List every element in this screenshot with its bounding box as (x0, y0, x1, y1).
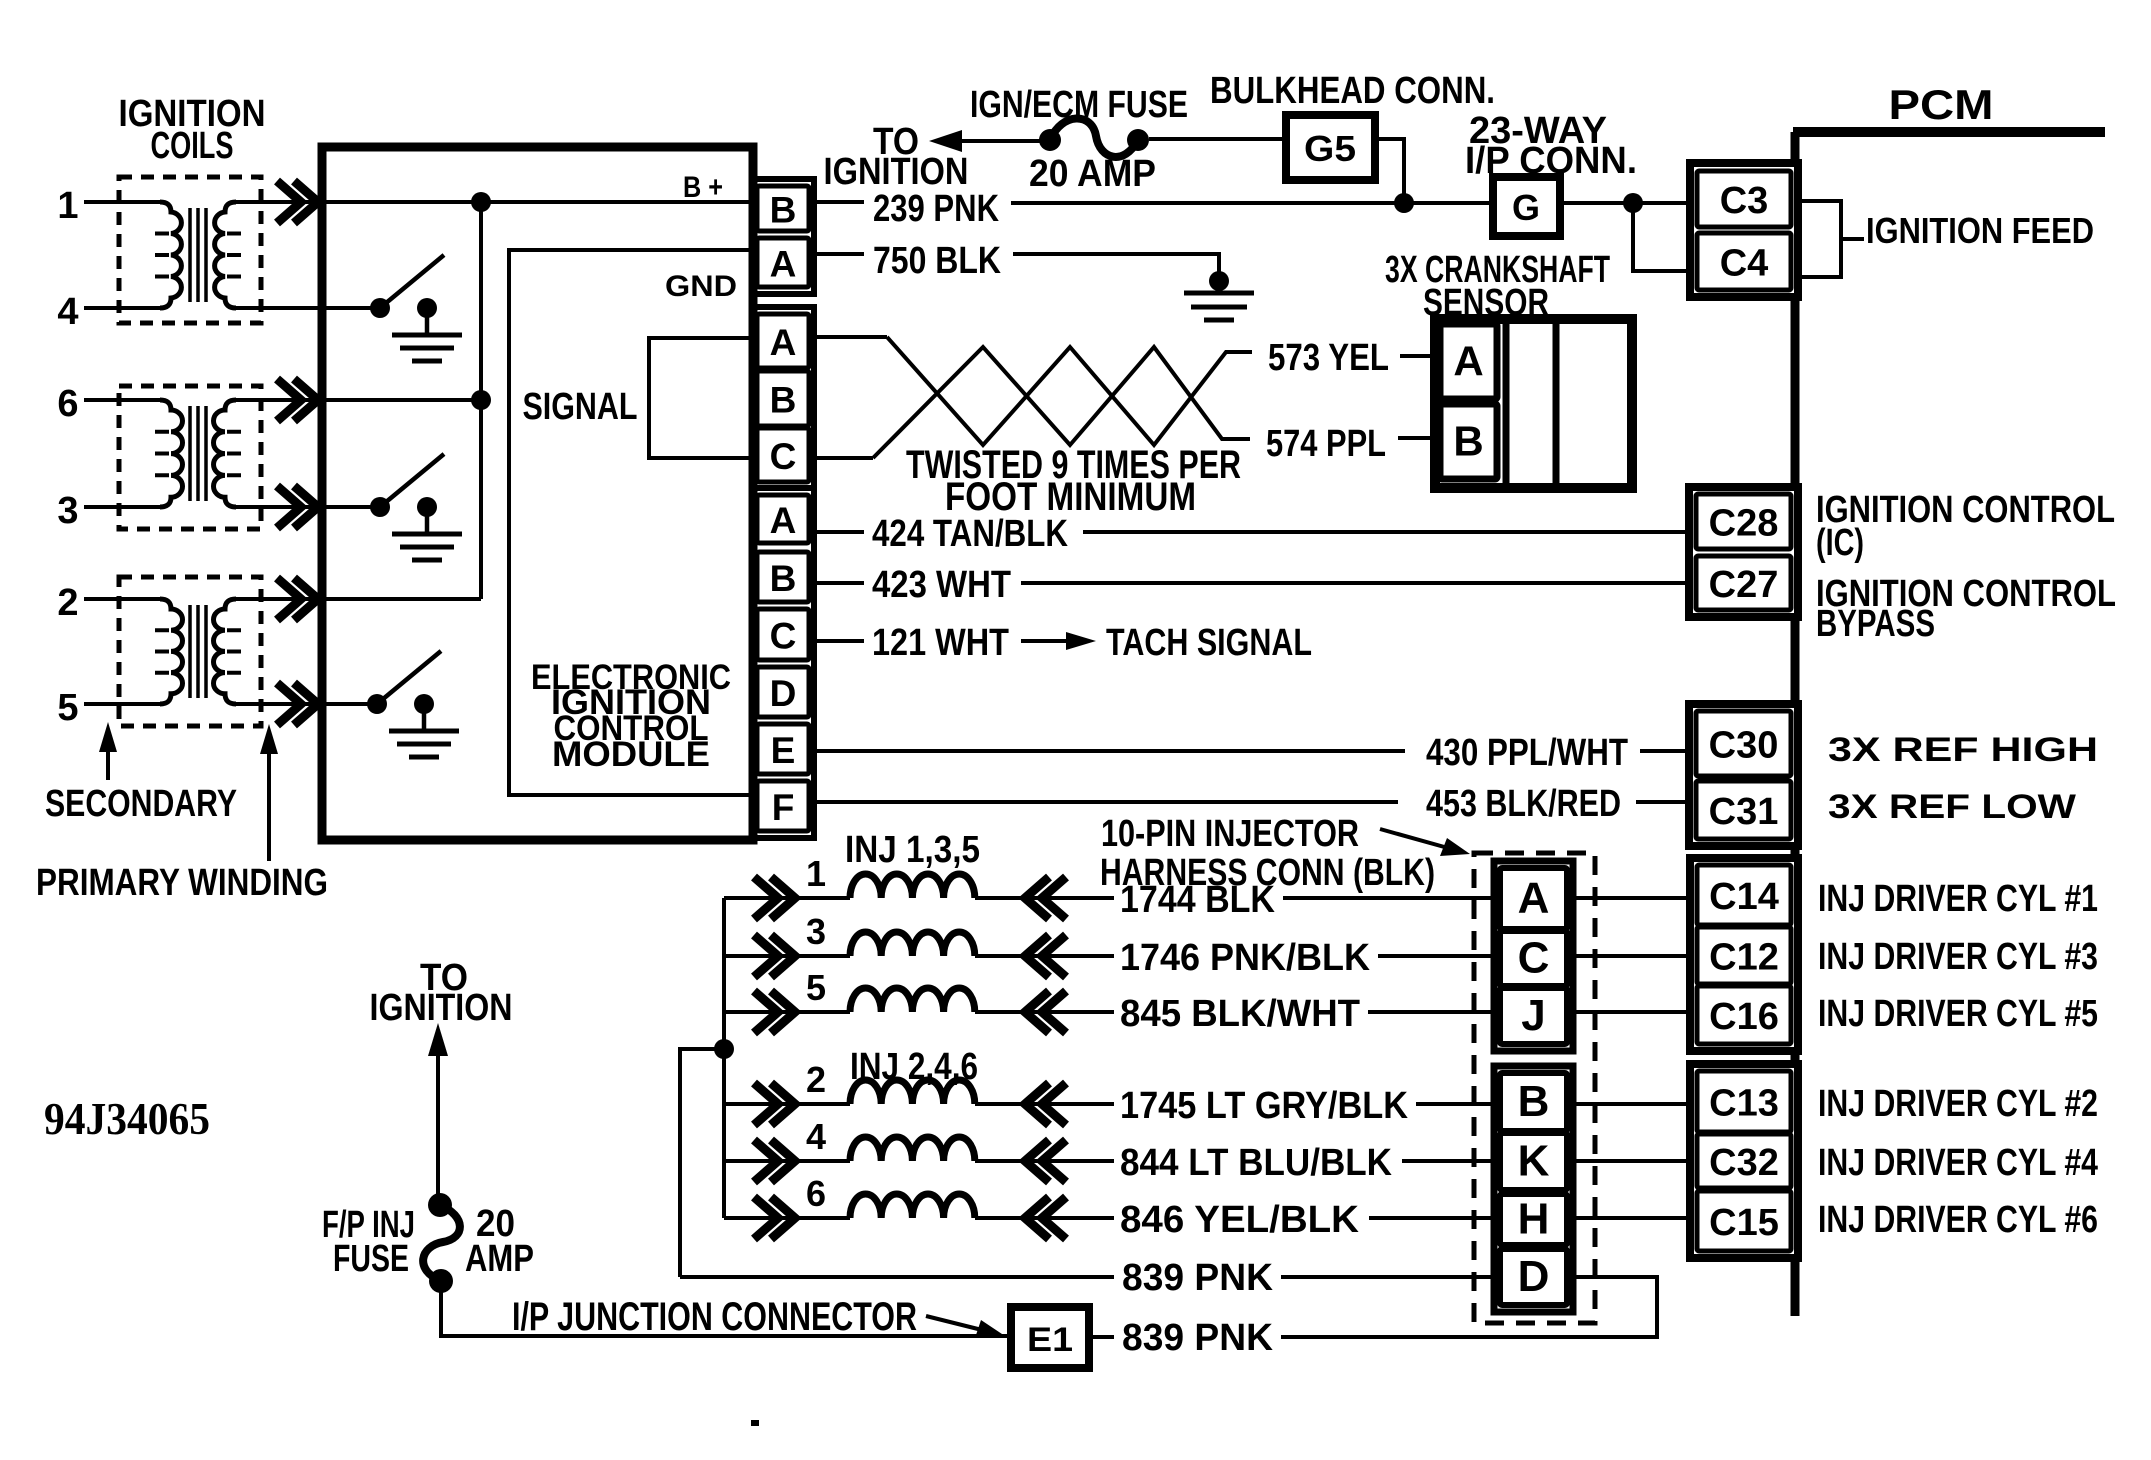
wire 430 PPL/WHT run (809, 749, 1405, 753)
injector 2 chevrons left (754, 1083, 778, 1125)
module connector group B/A outline (752, 179, 814, 294)
injector 6 chevrons right (1025, 1197, 1049, 1239)
svg-text:845 BLK/WHT: 845 BLK/WHT (1120, 993, 1360, 1035)
svg-text:HARNESS CONN (BLK): HARNESS CONN (BLK) (1100, 852, 1435, 894)
label TWISTED 9 TIMES PER FOOT MINIMUM (906, 443, 1241, 519)
wire 839 PNK (injector feed) (680, 1275, 1114, 1279)
junction dot before C3 (1623, 193, 1643, 213)
injector 5 coil (850, 988, 975, 1012)
svg-text:3: 3 (806, 911, 826, 952)
PCM pin C32 (1697, 1134, 1791, 1188)
injector harness connector dashed box (1474, 853, 1595, 1323)
connector chevron wire 202 (277, 181, 301, 223)
svg-text:C27: C27 (1709, 564, 1779, 606)
junction dot below G5 (1394, 193, 1414, 213)
PCM pin C16 (1697, 986, 1791, 1044)
svg-text:FUSE: FUSE (333, 1238, 409, 1280)
PCM top boundary line (1793, 127, 2105, 137)
svg-text:G5: G5 (1304, 128, 1356, 169)
injector 1 chevrons left (754, 877, 778, 919)
arrow to E1 (926, 1316, 1005, 1338)
wire 424 TAN/BLK stub (809, 530, 864, 534)
wire terminal 3 to secondary (84, 505, 160, 509)
svg-text:B +: B + (683, 171, 723, 204)
fuse F/P INJ 20 AMP symbol (423, 1193, 460, 1293)
svg-text:C16: C16 (1709, 996, 1779, 1038)
svg-text:6: 6 (806, 1173, 826, 1214)
injector 6 wire left (724, 1216, 850, 1220)
label TO IGNITION (bottom) (370, 957, 513, 1029)
svg-text:F: F (772, 787, 795, 828)
module pin A (424) (757, 495, 809, 543)
injector 6 chevrons left (754, 1197, 778, 1239)
svg-text:1: 1 (806, 853, 826, 894)
arrow 121 WHT to tach (1021, 632, 1096, 650)
injector 5 chevrons left (754, 991, 778, 1033)
PCM connector group C14/C12/C16 outline (1690, 858, 1798, 1051)
svg-text:COILS: COILS (151, 125, 234, 167)
svg-text:C14: C14 (1709, 876, 1779, 918)
PCM pin C14 (1697, 865, 1791, 925)
svg-text:BULKHEAD CONN.: BULKHEAD CONN. (1210, 70, 1495, 112)
switch/ground for coil T1 (370, 255, 462, 361)
electronic ignition control module outline (322, 147, 753, 840)
PCM pin C27 (1696, 556, 1791, 610)
injector 2 chevrons right (1025, 1083, 1049, 1125)
svg-text:A: A (770, 322, 797, 363)
ignition coil T1 secondary winding (160, 202, 181, 308)
label 10-PIN INJECTOR HARNESS CONN (BLK) (1100, 813, 1435, 894)
wire coil T1 primary to switch (row 308) (236, 306, 380, 310)
wire 839 PNK to harness pin D (1281, 1275, 1500, 1279)
svg-text:INJ DRIVER CYL #6: INJ DRIVER CYL #6 (1818, 1199, 2098, 1241)
svg-text:G: G (1512, 187, 1540, 228)
twisted pair wire A (573) (887, 337, 1252, 445)
arrow to ignition (bottom) (428, 1023, 448, 1199)
svg-text:IGNITION FEED: IGNITION FEED (1866, 210, 2094, 251)
stray mark (751, 1420, 759, 1426)
PCM pin C4 (1697, 233, 1791, 290)
svg-text:E: E (771, 730, 796, 771)
svg-text:1: 1 (57, 185, 78, 227)
injector 4 wire to label (975, 1159, 1114, 1163)
svg-text:430 PPL/WHT: 430 PPL/WHT (1426, 732, 1628, 774)
harness pin A (1500, 868, 1567, 929)
label ELECTRONIC IGNITION CONTROL MODULE (531, 658, 731, 774)
svg-text:2: 2 (57, 582, 78, 624)
svg-text:239 PNK: 239 PNK (873, 188, 999, 230)
svg-text:H: H (1518, 1195, 1550, 1244)
wire 750 BLK run (1013, 254, 1219, 274)
wire fuse to E1 (441, 1288, 1011, 1336)
svg-text:INJ 1,3,5: INJ 1,3,5 (845, 829, 980, 871)
wire branch to C4 (1633, 203, 1697, 271)
module connector group A-F outline (752, 488, 814, 838)
PCM pin C12 (1697, 927, 1791, 984)
label IGNITION CONTROL (IC) (1816, 489, 2115, 564)
ignition coil T3 secondary winding (160, 599, 183, 704)
ground G (750 BLK) symbol (1184, 291, 1254, 296)
wire 573 YEL to sensor pin A (1400, 354, 1440, 358)
wire 844 LT BLU/BLK to harness pin (1402, 1159, 1500, 1163)
wire terminal 2 to secondary (84, 597, 160, 601)
harness pin J (1500, 988, 1567, 1044)
harness pin C (1500, 931, 1567, 986)
svg-text:B: B (1518, 1077, 1550, 1126)
svg-text:6: 6 (57, 383, 78, 425)
svg-text:SIGNAL: SIGNAL (523, 386, 638, 428)
svg-text:750 BLK: 750 BLK (873, 240, 1001, 282)
harness pin B (1500, 1073, 1567, 1131)
svg-text:B: B (770, 190, 797, 231)
svg-text:C13: C13 (1709, 1083, 1779, 1125)
ignition coil T1 primary winding (215, 202, 236, 308)
svg-text:573 YEL: 573 YEL (1268, 337, 1389, 379)
svg-text:K: K (1518, 1137, 1550, 1186)
wire harness to C32 (1567, 1159, 1697, 1163)
injector 5 wire to label (975, 1010, 1114, 1014)
twisted pair wire B (574) (873, 347, 1250, 458)
wire terminal 1 to secondary (84, 200, 160, 204)
label 20 AMP (bottom) (465, 1203, 534, 1280)
svg-text:A: A (1518, 874, 1550, 923)
svg-text:GND: GND (665, 270, 737, 303)
wire harness to C14 (1567, 896, 1697, 900)
injector 4 coil (850, 1137, 975, 1161)
wire 1744 BLK to harness pin (1283, 896, 1500, 900)
ignition coil T2 (cyl 6/3) dashed enclosure (119, 386, 261, 529)
injector 2 wire left (724, 1102, 850, 1106)
connector chevron wire 507 (277, 486, 301, 528)
ignition coil T3 (cyl 2/5) dashed enclosure (119, 577, 261, 726)
sensor pin B (1440, 404, 1497, 479)
svg-text:4: 4 (806, 1116, 826, 1157)
PCM pin C28 (1696, 494, 1791, 549)
svg-text:B: B (1453, 418, 1483, 465)
PCM connector group C13/C32/C15 outline (1690, 1064, 1798, 1258)
harness pin H (1500, 1194, 1567, 1245)
PCM connector group C28/C27 outline (1689, 487, 1798, 617)
PCM pin C13 (1697, 1071, 1791, 1132)
wire 845 BLK/WHT to harness pin (1368, 1010, 1500, 1014)
svg-text:5: 5 (806, 967, 826, 1008)
junction dot injector rail (714, 1039, 734, 1059)
injector 6 coil (850, 1194, 975, 1218)
connector G box (1493, 177, 1560, 236)
svg-text:D: D (1518, 1252, 1550, 1301)
PCM connector group C30/C31 outline (1689, 704, 1798, 846)
svg-text:PCM: PCM (1889, 81, 1994, 128)
PCM pin C3 (1697, 171, 1791, 227)
arrow to ignition (929, 130, 1042, 152)
svg-text:A: A (1453, 338, 1483, 385)
module pin A (signal) (757, 314, 809, 368)
label F/P INJ FUSE (322, 1204, 415, 1280)
svg-text:C3: C3 (1720, 180, 1769, 222)
sensor internal dividers (1503, 324, 1510, 483)
svg-text:BYPASS: BYPASS (1816, 603, 1935, 645)
3X crankshaft sensor box (1435, 319, 1632, 488)
svg-text:J: J (1521, 991, 1545, 1040)
injector 1 chevrons right (1025, 877, 1049, 919)
wire terminal 4 to secondary (84, 306, 160, 310)
wire 846 YEL/BLK to harness pin (1369, 1216, 1500, 1220)
injector 3 wire left (724, 954, 850, 958)
svg-text:C: C (770, 436, 797, 477)
injector 3 chevrons right (1025, 935, 1049, 977)
svg-text:C: C (1518, 934, 1550, 983)
label IGNITION CONTROL BYPASS (1816, 573, 2116, 645)
svg-text:C31: C31 (1709, 791, 1779, 833)
wire 423 WHT stub (809, 581, 864, 585)
ignition feed bracket (1798, 201, 1841, 277)
harness group A/C/J outline (1494, 861, 1573, 1051)
module pin B (757, 186, 809, 231)
wire coil T3 primary to switch (row 704) (236, 702, 380, 706)
module pin B (423) (757, 552, 809, 602)
wire harness to C12 (1567, 954, 1697, 958)
svg-text:844 LT BLU/BLK: 844 LT BLU/BLK (1120, 1142, 1393, 1184)
module connector group A/B/C outline (752, 307, 814, 488)
ignition coil T1 core (188, 208, 192, 302)
svg-text:INJ DRIVER CYL #2: INJ DRIVER CYL #2 (1818, 1083, 2098, 1125)
svg-text:5: 5 (57, 687, 78, 729)
svg-text:1746 PNK/BLK: 1746 PNK/BLK (1120, 937, 1371, 979)
svg-text:A: A (770, 244, 797, 285)
module inner boundary (GND to F) (509, 250, 753, 795)
wire coil T2 primary to B+ rail (row 400) (236, 398, 481, 402)
wire 1746 PNK/BLK to harness pin (1378, 954, 1500, 958)
switch/ground for coil T2 (370, 454, 462, 560)
connector chevron wire 400 (277, 379, 301, 421)
svg-text:846 YEL/BLK: 846 YEL/BLK (1120, 1199, 1360, 1241)
wire 424 TAN/BLK run to C28 (1083, 530, 1696, 534)
ignition coil T3 core (188, 605, 192, 698)
wire G5 down to 239 PNK (1375, 139, 1404, 203)
wire 423 WHT run to C27 (1021, 581, 1696, 585)
label 23-WAY I/P CONN. (1465, 110, 1637, 182)
wire harness D to E1 (839 PNK) (1281, 1277, 1657, 1337)
junction dot B+ rail row 202 (471, 192, 491, 212)
svg-text:423 WHT: 423 WHT (872, 564, 1011, 606)
wire 574 PPL to sensor pin B (1398, 436, 1440, 440)
switch/ground for coil T3 (367, 651, 459, 757)
injector feed rail (722, 898, 726, 1218)
wire signal A to twisted pair (809, 335, 887, 339)
junction dot B+ rail row 400 (471, 390, 491, 410)
injector 1 wire to label (975, 896, 1114, 900)
svg-text:MODULE: MODULE (552, 735, 710, 774)
module pin D (757, 667, 809, 717)
svg-text:C12: C12 (1709, 937, 1779, 979)
svg-text:I/P JUNCTION CONNECTOR: I/P JUNCTION CONNECTOR (512, 1295, 917, 1339)
injector 2 wire to label (975, 1102, 1114, 1106)
module pin A (GND) (757, 238, 809, 287)
injector 3 wire to label (975, 954, 1114, 958)
svg-text:3X REF LOW: 3X REF LOW (1828, 788, 2077, 826)
svg-text:C28: C28 (1709, 503, 1779, 545)
svg-text:121 WHT: 121 WHT (872, 622, 1009, 664)
PCM pin C15 (1697, 1191, 1791, 1251)
svg-text:1745 LT GRY/BLK: 1745 LT GRY/BLK (1120, 1085, 1409, 1127)
wire 430 PPL/WHT to C30 (1640, 749, 1696, 753)
injector 3 chevrons left (754, 935, 778, 977)
injector 5 wire left (724, 1010, 850, 1014)
ignition coil T1 (cyl 1/4) dashed enclosure (119, 177, 261, 323)
ignition coil T2 core (188, 406, 192, 501)
svg-text:424 TAN/BLK: 424 TAN/BLK (872, 513, 1068, 555)
svg-text:4: 4 (57, 291, 78, 333)
wire terminal 5 to secondary (84, 702, 160, 706)
label PRIMARY WINDING with arrow (36, 724, 328, 904)
svg-text:3X REF HIGH: 3X REF HIGH (1828, 731, 2098, 769)
connector G5 box (1286, 115, 1375, 180)
connector chevron wire 704 (277, 683, 301, 725)
injector 4 wire left (724, 1159, 850, 1163)
module pin E (757, 724, 809, 774)
wire coil T2 primary to switch (row 507) (236, 505, 380, 509)
module pin C (signal) (757, 428, 809, 482)
module pin F (757, 781, 809, 831)
injector 1 wire left (724, 896, 850, 900)
svg-text:839 PNK: 839 PNK (1122, 1257, 1274, 1299)
svg-text:C15: C15 (1709, 1202, 1779, 1244)
ignition coil T2 secondary winding (160, 400, 183, 507)
injector 4 chevrons left (754, 1140, 778, 1182)
svg-text:IGNITION: IGNITION (370, 987, 513, 1029)
harness pin D (1500, 1249, 1567, 1305)
wire harness to C13 (1567, 1102, 1697, 1106)
wire 453 BLK/RED to C31 (1636, 800, 1696, 804)
arrow to harness connector (1380, 829, 1470, 856)
svg-text:C30: C30 (1709, 725, 1779, 767)
harness group B/K/H/D outline (1494, 1066, 1573, 1312)
svg-text:94J34065: 94J34065 (44, 1094, 210, 1144)
injector 2 coil (850, 1080, 975, 1104)
svg-text:C: C (770, 616, 797, 657)
injector 6 wire to label (975, 1216, 1114, 1220)
svg-text:PRIMARY WINDING: PRIMARY WINDING (36, 862, 328, 904)
svg-text:20 AMP: 20 AMP (1029, 153, 1156, 195)
wire 239 PNK run to PCM C3 (1011, 201, 1697, 205)
wire coil T1 primary to B+ rail (row 202) (236, 200, 757, 204)
svg-text:B: B (770, 558, 797, 599)
svg-text:A: A (770, 500, 797, 541)
svg-text:C4: C4 (1720, 243, 1769, 285)
module pin B (signal) (757, 371, 809, 426)
svg-text:INJ DRIVER CYL #4: INJ DRIVER CYL #4 (1818, 1142, 2098, 1184)
connector E1 box (1011, 1307, 1089, 1368)
svg-text:SECONDARY: SECONDARY (45, 783, 237, 825)
svg-text:INJ DRIVER CYL #3: INJ DRIVER CYL #3 (1818, 936, 2098, 978)
svg-text:IGNITION: IGNITION (824, 151, 969, 193)
label 3X CRANKSHAFT SENSOR (1385, 249, 1610, 324)
svg-text:453 BLK/RED: 453 BLK/RED (1426, 783, 1621, 825)
svg-text:574 PPL: 574 PPL (1266, 423, 1386, 465)
label SECONDARY with arrow (45, 722, 237, 825)
connector chevron wire 599 (277, 578, 301, 620)
PCM pin C30 (1696, 711, 1791, 776)
svg-text:2: 2 (806, 1059, 826, 1100)
wire fuse to G5 (1149, 137, 1286, 141)
wire 1745 LT GRY/BLK to harness pin (1416, 1102, 1500, 1106)
injector 5 chevrons right (1025, 991, 1049, 1033)
wire E1 right stub (1089, 1335, 1114, 1339)
injector 1 coil (850, 874, 975, 898)
signal bracket joining pins A and C (649, 338, 753, 458)
wire rail to 839 PNK drop (680, 1049, 724, 1277)
ignition coil T2 primary winding (214, 400, 237, 507)
svg-text:3: 3 (57, 490, 78, 532)
injector 4 chevrons right (1025, 1140, 1049, 1182)
PCM left boundary line (1791, 132, 1800, 1316)
fuse IGN/ECM 20 AMP symbol (1039, 118, 1149, 156)
svg-text:E1: E1 (1027, 1321, 1073, 1359)
wire 453 BLK/RED run (809, 800, 1398, 804)
wire harness to C15 (1567, 1216, 1697, 1220)
ground G (750 BLK) dot (1209, 271, 1229, 291)
B+ rail vertical (479, 202, 483, 599)
svg-text:10-PIN INJECTOR: 10-PIN INJECTOR (1101, 813, 1359, 855)
label TO IGNITION (top) (824, 121, 969, 193)
svg-text:TACH SIGNAL: TACH SIGNAL (1106, 622, 1312, 664)
module pin C (121) (757, 609, 809, 660)
wire coil T3 primary to B+ rail (row 599) (236, 597, 481, 601)
wire signal C to twisted pair (809, 456, 873, 460)
ignition coil T3 primary winding (214, 599, 237, 704)
PCM connector group C3/C4 outline (1690, 163, 1798, 297)
svg-text:INJ DRIVER CYL #1: INJ DRIVER CYL #1 (1818, 878, 2098, 920)
wire 239 PNK stub (809, 200, 864, 204)
harness pin K (1500, 1133, 1567, 1190)
injector 3 coil (850, 932, 975, 956)
wire harness to C16 (1567, 1010, 1697, 1014)
svg-text:C32: C32 (1709, 1142, 1779, 1184)
svg-text:(IC): (IC) (1816, 522, 1864, 564)
svg-text:839 PNK: 839 PNK (1122, 1317, 1274, 1359)
wire terminal 6 to secondary (84, 398, 160, 402)
wire 750 BLK stub (809, 252, 864, 256)
PCM pin C31 (1696, 781, 1791, 839)
svg-text:B: B (770, 380, 797, 421)
sensor pin A (1440, 324, 1497, 399)
svg-text:AMP: AMP (465, 1238, 534, 1280)
wire 121 WHT stub (809, 639, 864, 643)
svg-text:D: D (770, 673, 797, 714)
svg-text:INJ DRIVER CYL #5: INJ DRIVER CYL #5 (1818, 993, 2098, 1035)
